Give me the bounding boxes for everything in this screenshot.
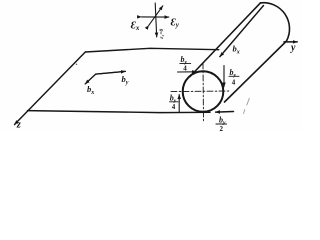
cylinder upper generator — [190, 3, 260, 77]
svg-text:4: 4 — [232, 79, 236, 87]
center line horizontal (dash-dot) — [171, 90, 230, 93]
dimension arrow top of circle (b_y/4 right) — [178, 71, 197, 73]
fraction bars — [170, 64, 240, 124]
dimension arrow left of circle (b_y/4 up) — [178, 95, 180, 112]
fraction bar left b_y/4 — [170, 101, 179, 103]
svg-text:2: 2 — [220, 125, 224, 131]
svg-text:by: by — [122, 74, 129, 86]
svg-text:by: by — [230, 68, 237, 79]
plane left edge and x-z axis line — [15, 52, 86, 125]
dimension arrow right of circle (b_y/4 down) — [223, 66, 225, 87]
epsilon cross: diagonal double arrow — [149, 6, 163, 26]
svg-text:ε₂=0: ε₂=0 — [159, 28, 165, 38]
fraction bar bottom b_y/2 — [216, 123, 227, 125]
plane vectors b_x b_y — [85, 71, 125, 84]
wire: ground dimension segment right of circle with left arrowhead — [216, 111, 234, 114]
svg-text:bx: bx — [233, 44, 240, 56]
cylinder near end circle — [183, 71, 224, 112]
svg-text:y: y — [290, 43, 296, 54]
svg-text:bx: bx — [87, 84, 94, 96]
svg-text:z: z — [16, 119, 22, 130]
fraction bar top b_y/4 — [180, 63, 191, 65]
cylinder far end cap — [260, 3, 289, 41]
svg-text:Ɛx: Ɛx — [131, 20, 140, 32]
fraction bar right b_y/4 — [229, 75, 239, 77]
svg-text:Ɛy: Ɛy — [171, 17, 180, 29]
svg-text:4: 4 — [172, 103, 176, 111]
epsilon cross: horizontal double arrow — [142, 16, 169, 18]
y axis arrow — [284, 41, 297, 43]
cylinder lower generator — [225, 41, 287, 102]
epsilon cross: vertical line with down arrow — [155, 3, 157, 37]
svg-text:4: 4 — [183, 65, 187, 73]
faint dash-dot right of circle — [244, 98, 250, 113]
center line vertical (dash-dot) — [202, 63, 205, 123]
plane top edge — [85, 48, 218, 52]
plane bottom edge (ground) — [28, 111, 211, 113]
vector b_x along cylinder — [220, 6, 264, 57]
